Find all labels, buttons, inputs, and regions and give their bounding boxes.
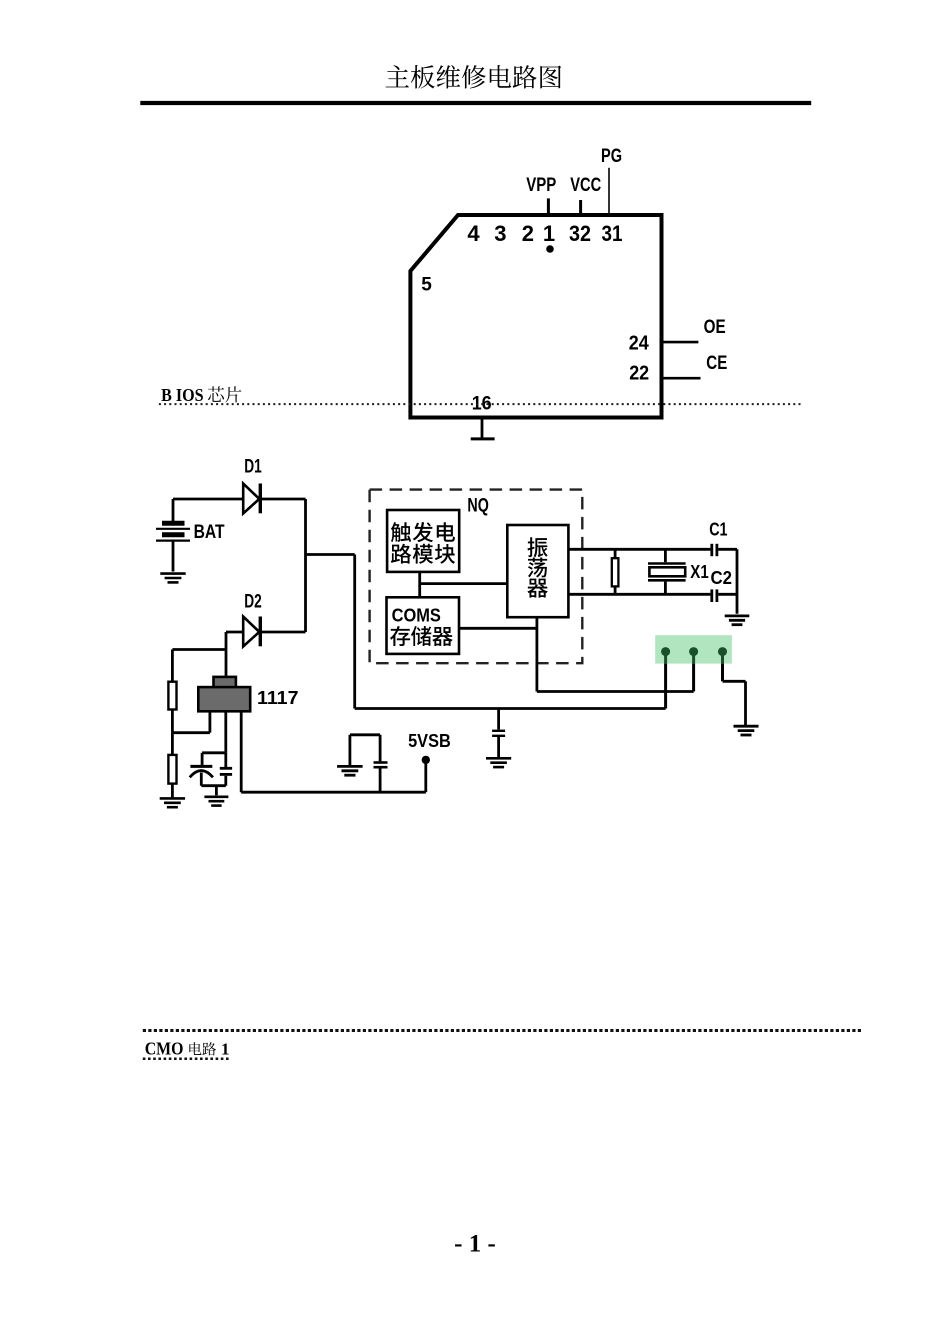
resistor (osc feedback) xyxy=(612,558,619,586)
wire osc top to C1 xyxy=(568,548,710,551)
wire D2 anode down to 1117 xyxy=(225,632,228,678)
ground R2 xyxy=(160,798,185,807)
svg-text:CMO: CMO xyxy=(145,1038,184,1058)
1117 out pin xyxy=(224,711,227,753)
wire oscillator bottom stem xyxy=(536,617,539,691)
wire bottom bus to header pin1 xyxy=(355,707,666,710)
svg-text:C2: C2 xyxy=(711,567,733,588)
wire BAT to D1 xyxy=(173,498,243,501)
svg-text:BAT: BAT xyxy=(194,522,225,543)
block COMS memory box xyxy=(387,597,460,654)
wire gnd to cap xyxy=(350,733,380,736)
pin 24 lead xyxy=(662,341,699,344)
wire battery top xyxy=(172,499,175,521)
ground 5VSB cap xyxy=(337,766,363,775)
svg-text:1: 1 xyxy=(221,1039,230,1058)
ground battery xyxy=(160,574,185,583)
header pin3 stem green xyxy=(721,652,724,664)
svg-text:B IOS: B IOS xyxy=(161,385,204,405)
wire 5VSB stem xyxy=(424,760,427,792)
diode D1 xyxy=(243,484,260,514)
wire resistor top stub xyxy=(614,549,617,558)
crystal X1 xyxy=(648,549,686,594)
header pin 2 xyxy=(689,647,698,656)
wire vertical to bottom bus xyxy=(353,555,356,709)
regulator U 1117 body xyxy=(198,687,250,711)
header pin1 stem xyxy=(664,664,667,709)
wire cap connector xyxy=(202,751,226,754)
wire R2 to ground xyxy=(171,784,174,798)
header pin2 stem xyxy=(692,664,695,692)
diode D2 xyxy=(243,617,260,647)
1117 adj pin xyxy=(208,711,211,732)
wire oscillator to header pin2 xyxy=(537,690,694,693)
node 5VSB xyxy=(422,756,430,764)
text 存储器 xyxy=(390,626,453,646)
svg-text:1: 1 xyxy=(543,221,555,246)
wire osc bottom to C2 xyxy=(568,593,710,596)
wire trigger to COMS xyxy=(418,572,421,597)
wire D1 to node xyxy=(260,498,305,501)
header rule xyxy=(140,101,811,105)
pin VPP tick xyxy=(547,198,550,215)
svg-text:31: 31 xyxy=(602,221,623,246)
capacitor electrolytic C (1117 out) xyxy=(190,753,213,786)
ground bottom bus cap xyxy=(486,758,511,767)
label 电路 xyxy=(189,1042,216,1055)
wire 5VSB bus xyxy=(241,791,426,794)
svg-text:CE: CE xyxy=(706,353,727,374)
svg-text:24: 24 xyxy=(629,333,650,355)
capacitor C (5VSB filter) xyxy=(374,735,388,792)
svg-text:D1: D1 xyxy=(244,457,262,478)
wire node branch to NQ xyxy=(306,553,355,556)
svg-text:5VSB: 5VSB xyxy=(408,731,451,751)
svg-text:VPP: VPP xyxy=(526,175,556,196)
title 主板维修电路图 xyxy=(386,65,562,89)
wire COMS to oscillator stem xyxy=(459,627,537,630)
wire D2 to node xyxy=(260,631,305,634)
section dotted rule CMO xyxy=(143,1029,863,1032)
wire to D2 xyxy=(226,631,243,634)
svg-text:C1: C1 xyxy=(709,520,727,540)
svg-text:22: 22 xyxy=(629,363,649,385)
svg-text:1117: 1117 xyxy=(257,688,299,708)
svg-text:5: 5 xyxy=(421,275,432,296)
svg-text:VCC: VCC xyxy=(570,175,601,196)
header pin 1 xyxy=(661,647,670,656)
wire C2 to corner xyxy=(718,593,737,596)
capacitor C (bottom bus) xyxy=(492,709,505,758)
wire caps to ground xyxy=(215,786,218,796)
wire C1 to corner xyxy=(718,548,737,551)
resistor R2 xyxy=(168,755,176,784)
header pin3 stem xyxy=(721,664,724,682)
capacitor C (1117 out, right) xyxy=(220,753,232,786)
svg-text:NQ: NQ xyxy=(467,496,488,517)
CMO dotted underline xyxy=(143,1058,231,1061)
header pin3 down xyxy=(744,681,747,726)
resistor R1 xyxy=(168,682,176,710)
text 路模块 line2 xyxy=(391,544,455,564)
svg-text:2: 2 xyxy=(522,221,534,246)
wire junction to 1117 adj xyxy=(172,731,210,734)
pin 16 ground stem xyxy=(481,418,484,439)
battery BAT xyxy=(156,523,190,540)
text 振荡器 vertical xyxy=(527,537,547,597)
label 芯片 xyxy=(208,386,242,402)
IC BIOS chip outline xyxy=(410,215,661,418)
wire resistor bottom stub xyxy=(614,586,617,594)
wire gnd up xyxy=(348,735,351,765)
wire down to R1 xyxy=(171,650,174,682)
capacitor C2 xyxy=(712,589,717,602)
wire battery to ground xyxy=(172,541,175,572)
svg-text:4: 4 xyxy=(467,221,480,246)
svg-text:PG: PG xyxy=(601,146,622,167)
svg-text:OE: OE xyxy=(704,317,726,338)
wire junction to R2 xyxy=(171,733,174,755)
svg-text:COMS: COMS xyxy=(392,606,441,626)
wire trigger to oscillator xyxy=(420,582,508,585)
header pin3 elbow xyxy=(723,680,746,683)
pin VCC tick xyxy=(579,200,582,215)
header pin1 stem green xyxy=(664,652,667,664)
section dotted rule BIOS xyxy=(159,403,802,405)
header pin 3 xyxy=(718,647,727,656)
svg-text:- 1 -: - 1 - xyxy=(454,1230,496,1257)
block trigger-circuit-module box xyxy=(387,510,459,572)
wire node D1-D2 vertical xyxy=(304,499,307,632)
ground header pin3 xyxy=(734,726,759,735)
header pin2 stem green xyxy=(692,652,695,664)
NQ dashed enclosure xyxy=(370,490,583,664)
connector header (green) xyxy=(655,635,732,663)
pin PG wire xyxy=(608,168,610,215)
pin 1 index dot xyxy=(546,245,554,253)
svg-text:D2: D2 xyxy=(244,592,262,613)
pin 22 lead xyxy=(662,377,701,380)
block oscillator box xyxy=(507,525,568,617)
text 触发电 line1 xyxy=(391,522,455,542)
svg-text:X1: X1 xyxy=(690,562,708,582)
regulator U 1117 tab xyxy=(214,677,236,688)
capacitor C1 xyxy=(712,544,717,556)
wire caps bottom junction xyxy=(201,784,226,787)
svg-text:32: 32 xyxy=(569,221,591,246)
wire C1C2 ground vertical xyxy=(736,549,739,614)
svg-text:3: 3 xyxy=(494,221,506,246)
wire R1 to junction xyxy=(171,710,174,733)
ground C1C2 xyxy=(725,616,750,625)
pin 16 ground bar xyxy=(471,437,495,440)
ground caps 1117 xyxy=(204,797,228,806)
wire branch to R1 xyxy=(172,648,226,651)
1117 in pin down xyxy=(240,711,243,792)
